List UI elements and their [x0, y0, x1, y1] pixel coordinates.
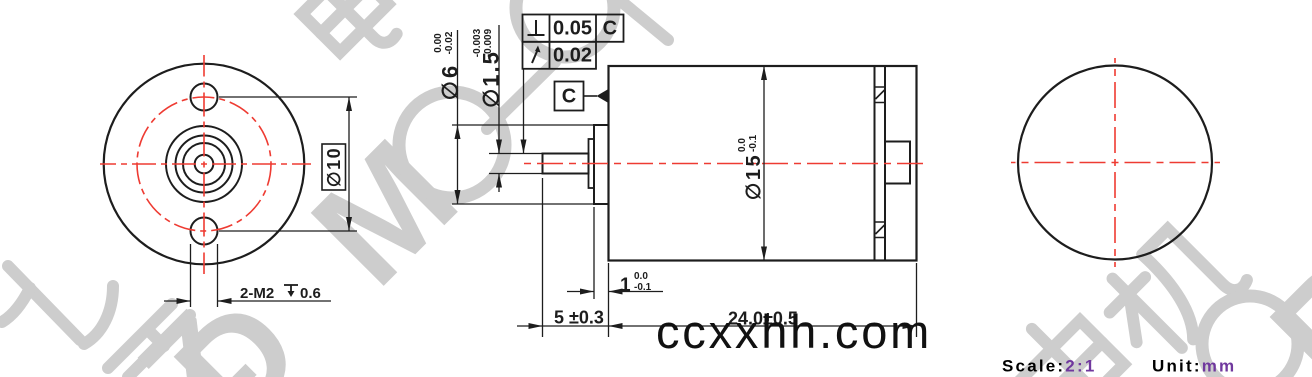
runout symbol	[532, 49, 538, 63]
left view boss circle outer	[166, 126, 242, 202]
watermark char zhi strokes	[108, 304, 190, 377]
svg-text:∅6: ∅6	[438, 63, 463, 100]
left view boss circle middle	[176, 136, 233, 193]
svg-text:Unit:mm: Unit:mm	[1152, 357, 1236, 376]
watermark letter O2 ring	[516, 0, 614, 57]
perpendicularity symbol	[528, 20, 545, 35]
watermark char dian top	[285, 0, 408, 72]
svg-text:5 ±0.3: 5 ±0.3	[554, 308, 604, 328]
watermark stroke T-bar	[487, 62, 555, 129]
svg-text:0.0: 0.0	[634, 271, 648, 282]
watermark char dian bottom-right	[1004, 301, 1146, 377]
top tab in strip	[876, 87, 885, 103]
phi10 label box	[322, 144, 346, 190]
datum C	[555, 82, 584, 111]
dimension 5 +-0.3 and 24.0 +-0.5	[517, 178, 917, 337]
left view shaft circle	[195, 155, 214, 174]
feature control frame	[523, 15, 624, 69]
left view red centerlines	[100, 55, 311, 274]
dimension phi10	[219, 97, 357, 231]
motor body outline	[609, 66, 917, 261]
svg-text:-0.02: -0.02	[444, 31, 455, 54]
svg-text:-0.009: -0.009	[483, 28, 494, 57]
svg-text:0.02: 0.02	[553, 45, 592, 67]
dimension 2-M2 depth 0.6	[164, 244, 331, 307]
body/endcap separation line 1	[874, 66, 876, 261]
svg-text:0.00: 0.00	[433, 33, 444, 53]
svg-text:-0.1: -0.1	[748, 134, 759, 152]
left view top M2 hole	[191, 84, 218, 111]
dimension 1 0/-0.1	[567, 207, 663, 299]
bottom tab in strip	[876, 222, 885, 238]
svg-text:∅15: ∅15	[743, 153, 765, 200]
watermark letter O3 ring	[1202, 296, 1298, 377]
left view outer circle	[104, 64, 305, 265]
dimension phi15	[763, 66, 765, 261]
svg-text:C: C	[603, 18, 617, 40]
svg-text:0.0: 0.0	[737, 138, 748, 152]
svg-text:ccxxhh.com: ccxxhh.com	[656, 305, 932, 358]
washer	[589, 139, 595, 188]
depth symbol	[284, 285, 298, 293]
svg-text:-0.1: -0.1	[634, 282, 652, 293]
watermark char wan bottom-left	[2, 266, 113, 344]
svg-text:C: C	[562, 86, 576, 108]
front boss	[594, 125, 609, 204]
left view boss circle inner	[183, 143, 225, 185]
svg-text:R: R	[1241, 228, 1312, 377]
svg-text:∅10: ∅10	[324, 147, 344, 187]
svg-text:0.6: 0.6	[300, 285, 321, 302]
svg-text:∅1.5: ∅1.5	[479, 50, 504, 108]
svg-text:0.05: 0.05	[553, 18, 592, 40]
svg-text:1: 1	[620, 275, 631, 296]
middle view red centerline	[520, 163, 925, 165]
watermark letter O ring	[399, 92, 505, 198]
svg-text:Scale:2:1: Scale:2:1	[1002, 357, 1096, 376]
horizontal centerline	[100, 163, 311, 165]
vertical centerline	[203, 55, 205, 274]
dimension phi1.5	[489, 25, 543, 192]
right view red centerlines	[1011, 58, 1220, 267]
rear connector block	[885, 142, 910, 184]
svg-text:2-M2: 2-M2	[240, 285, 274, 302]
shaft	[543, 154, 589, 174]
watermark stroke top-right diagonal	[622, 2, 668, 40]
svg-text:-0.003: -0.003	[472, 28, 483, 57]
left view bottom M2 hole	[191, 218, 218, 245]
watermark char ji right	[1093, 212, 1250, 369]
bolt circle phi10	[137, 97, 271, 231]
GDT leader to shaft	[523, 69, 525, 154]
dimension phi6	[452, 30, 608, 204]
right view circle	[1018, 66, 1212, 260]
body/endcap separation line 2	[884, 66, 886, 261]
